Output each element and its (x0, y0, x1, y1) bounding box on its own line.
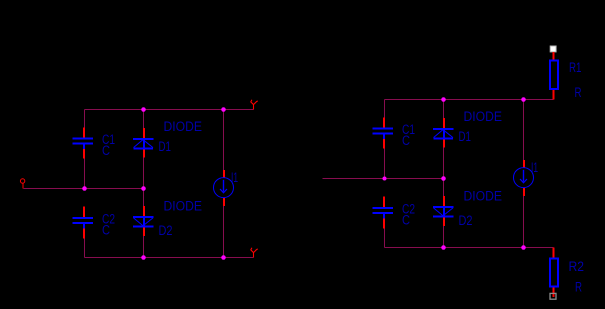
wire source branch above I1 (right) (523, 100, 525, 161)
wire left branch middle segment (right) (384, 148, 386, 179)
capacitor C1 (left) (73, 128, 94, 159)
junction middle stub / capacitor branch (right) (383, 177, 387, 181)
wire bottom bus (left circuit) (85, 257, 254, 259)
wire left branch lower segment (84, 238, 86, 258)
wire diode branch below D2 (right) (443, 226, 445, 248)
wire diode branch above D1 (right) (443, 100, 445, 119)
svg-text:R: R (575, 85, 582, 100)
wire diode branch D1 to middle bus (143, 157, 145, 189)
svg-text:DIODE: DIODE (464, 109, 503, 124)
svg-text:R1: R1 (569, 60, 582, 75)
svg-text:R2: R2 (569, 259, 585, 274)
junction middle bus / capacitor branch (left) (82, 186, 87, 191)
svg-text:D1: D1 (159, 139, 172, 154)
svg-text:D1: D1 (459, 129, 472, 144)
svg-text:I1: I1 (531, 160, 538, 175)
junction top bus / D1 branch (left) (141, 107, 146, 112)
wire middle stub (right circuit) (323, 178, 444, 180)
junction middle bus / diode branch (left) (141, 186, 146, 191)
svg-text:I1: I1 (231, 170, 238, 185)
wire diode branch above D1 (143, 110, 145, 129)
svg-text:D2: D2 (159, 223, 173, 238)
junction top bus / I1 branch (left) (221, 107, 226, 112)
wire left branch upper segment (right) (384, 100, 386, 118)
diode D2 (right, cathode down) (433, 196, 454, 226)
svg-text:C: C (402, 213, 410, 228)
junction bottom bus / diode branch (left) (141, 255, 146, 260)
wire top bus (right circuit) (385, 99, 554, 101)
wire diode branch D1 to middle (right) (443, 147, 445, 179)
capacitor C2 (right) (373, 197, 394, 229)
wire top bus (left circuit) (85, 109, 254, 111)
resistor R1 (550, 46, 558, 100)
capacitor C1 (right) (373, 118, 394, 149)
junction bottom bus / I1 branch (left) (221, 255, 226, 260)
junction top bus / I1 branch (right) (521, 97, 526, 102)
svg-text:R: R (575, 280, 582, 295)
wire source branch below I1 (right) (523, 196, 525, 248)
wire source branch below I1 (223, 206, 225, 258)
junction bottom bus / I1 branch (right) (521, 245, 526, 250)
svg-text:C: C (102, 143, 110, 158)
svg-text:DIODE: DIODE (164, 199, 203, 214)
wire bottom bus (right circuit) (385, 247, 554, 249)
svg-text:D2: D2 (459, 213, 473, 228)
terminal input pigtail left (20, 179, 24, 189)
svg-text:DIODE: DIODE (464, 189, 503, 204)
svg-text:DIODE: DIODE (164, 119, 203, 134)
wire left branch lower segment (right) (384, 228, 386, 248)
junction bottom bus / diode branch (right) (441, 245, 446, 250)
terminal pigtail bottom right (251, 248, 258, 258)
wire middle bus (left circuit) (24, 188, 144, 190)
wire left branch middle segment (84, 158, 86, 189)
diode D1 (left, cathode up) (133, 128, 154, 158)
current source I1 (left) (214, 170, 234, 206)
resistor R2 (550, 248, 558, 300)
wire diode branch below D2 (143, 236, 145, 258)
svg-text:C: C (102, 223, 110, 238)
junction middle stub / diode branch (right) (441, 176, 446, 181)
current source I1 (right) (514, 160, 534, 196)
wire diode branch middle to D2 (right) (443, 179, 445, 197)
svg-text:C: C (402, 133, 410, 148)
terminal pigtail top right (251, 100, 258, 110)
wire source branch above I1 (223, 110, 225, 171)
capacitor C2 (left) (73, 207, 94, 239)
junction top bus / D1 branch (right) (441, 97, 446, 102)
wire diode branch middle bus to D2 (143, 189, 145, 207)
diode D1 (right, cathode up) (433, 118, 454, 148)
diode D2 (left, cathode down) (133, 206, 154, 236)
wire left branch upper segment (84, 110, 86, 128)
